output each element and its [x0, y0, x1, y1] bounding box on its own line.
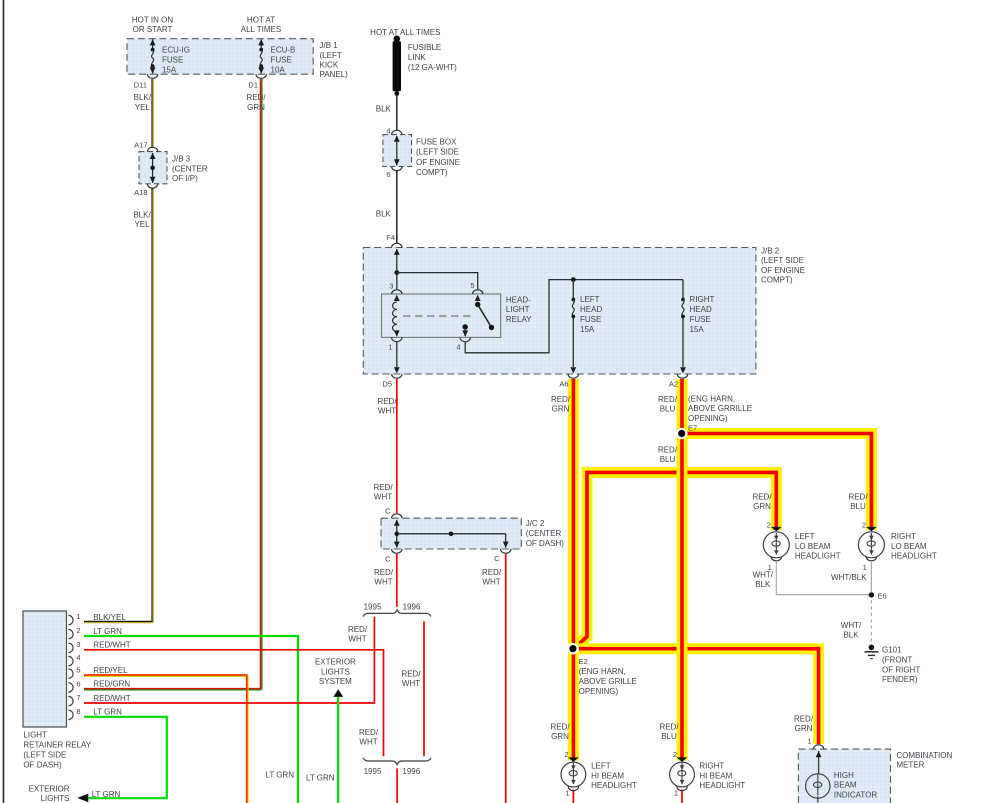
svg-text:GRN: GRN — [552, 405, 570, 414]
arrow to exterior lights (bottom left) — [77, 794, 88, 803]
svg-text:RED/: RED/ — [551, 395, 571, 404]
svg-text:15A: 15A — [580, 325, 595, 334]
svg-text:RED/WHT: RED/WHT — [93, 694, 130, 703]
svg-text:FUSIBLE: FUSIBLE — [408, 43, 441, 52]
svg-text:RED/: RED/ — [550, 723, 570, 732]
junction block J/B 3 (center of I/P) box — [139, 152, 167, 184]
J/B2 wire F4 to junction — [396, 249, 398, 273]
svg-text:RED/: RED/ — [794, 714, 814, 723]
light retainer relay box — [23, 611, 67, 727]
svg-text:COMPT): COMPT) — [761, 275, 793, 284]
svg-text:RED/WHT: RED/WHT — [93, 641, 130, 650]
svg-text:(12 GA-WHT): (12 GA-WHT) — [408, 63, 457, 72]
wire RED/WHT D5 to J/C2 — [396, 379, 398, 513]
svg-text:OF I/P): OF I/P) — [172, 174, 198, 183]
svg-text:J/B 3: J/B 3 — [172, 155, 191, 164]
fusible link (12 GA-WHT) — [393, 41, 401, 91]
svg-text:HOT AT: HOT AT — [247, 16, 275, 25]
svg-text:GRN: GRN — [753, 502, 771, 511]
wire WHT/BLK right lo beam to E6 — [870, 562, 872, 592]
J/B2 wire relay pin 4 to head fuses bus — [465, 280, 683, 353]
wire BLK/YEL A18 down to retainer relay pin 1 — [151, 189, 153, 622]
svg-text:BLK: BLK — [376, 105, 392, 114]
svg-text:C: C — [385, 554, 391, 563]
svg-text:HEADLIGHT: HEADLIGHT — [891, 552, 937, 561]
connector A6 — [568, 374, 578, 378]
svg-text:LT GRN: LT GRN — [265, 771, 294, 780]
svg-text:OPENING): OPENING) — [579, 687, 619, 696]
J/C2 bus — [395, 532, 400, 537]
svg-text:SYSTEM: SYSTEM — [319, 677, 352, 686]
svg-text:GRN: GRN — [247, 103, 265, 112]
svg-text:1995: 1995 — [364, 603, 382, 612]
connector pin 4 retainer relay — [68, 656, 73, 665]
svg-text:OF RIGHT: OF RIGHT — [882, 665, 920, 674]
svg-text:OR START: OR START — [133, 25, 173, 34]
connector relay pin 3 — [392, 290, 402, 294]
svg-text:3: 3 — [389, 281, 393, 290]
svg-text:(CENTER: (CENTER — [172, 164, 208, 173]
svg-text:LEFT: LEFT — [795, 532, 815, 541]
svg-text:RED/: RED/ — [659, 723, 679, 732]
wire RED/YEL retainer relay pin 5 down — [84, 676, 248, 803]
svg-text:OF DASH): OF DASH) — [23, 761, 62, 770]
svg-text:A18: A18 — [134, 188, 147, 197]
svg-text:RED/: RED/ — [752, 493, 772, 502]
relay mechanical link (dashed) — [403, 315, 471, 317]
svg-text:RED/: RED/ — [359, 728, 379, 737]
svg-text:BLU: BLU — [660, 405, 676, 414]
wire highlight band E2 to high beam indicator — [573, 649, 819, 744]
svg-text:RETAINER RELAY: RETAINER RELAY — [23, 741, 91, 750]
svg-text:LT GRN: LT GRN — [92, 790, 121, 799]
svg-text:(ENG HARN,: (ENG HARN, — [688, 394, 735, 403]
border frame left line — [3, 0, 5, 803]
svg-text:LEFT: LEFT — [580, 295, 600, 304]
wire red core A6 to left hi beam — [572, 379, 576, 758]
wire highlight band E7 to right lo beam — [682, 434, 871, 531]
svg-text:2: 2 — [76, 626, 80, 635]
left lo beam headlight — [763, 527, 789, 561]
wire red core E2 branch to left lo beam — [573, 472, 776, 649]
svg-text:5: 5 — [470, 281, 474, 290]
svg-text:(ENG HARN,: (ENG HARN, — [579, 667, 626, 676]
wire red core E2 to high beam indicator — [573, 649, 819, 744]
svg-text:BLU: BLU — [661, 732, 677, 741]
svg-text:J/C 2: J/C 2 — [526, 519, 545, 528]
connector A2 — [677, 374, 687, 378]
svg-text:G101: G101 — [882, 646, 902, 655]
svg-text:HEADLIGHT: HEADLIGHT — [699, 781, 745, 790]
svg-text:BLK/YEL: BLK/YEL — [93, 613, 126, 622]
svg-text:1: 1 — [565, 789, 569, 798]
svg-text:RIGHT: RIGHT — [891, 532, 916, 541]
junction connector J/C 2 (center of dash) box — [381, 518, 521, 549]
svg-text:FENDER): FENDER) — [882, 675, 918, 684]
svg-text:METER: METER — [896, 761, 924, 770]
left head fuse 15A — [570, 280, 576, 374]
relay switch contact pin 4 — [463, 324, 468, 329]
svg-text:RED/: RED/ — [374, 568, 394, 577]
svg-text:PANEL): PANEL) — [320, 70, 349, 79]
svg-text:GRN: GRN — [551, 732, 569, 741]
wire highlight band RED/BLU A2 to E7 to right hi beam — [677, 379, 688, 761]
wire highlight band RED/GRN A6 to E2 to left hi beam — [568, 379, 579, 761]
svg-text:RED/: RED/ — [848, 493, 868, 502]
arrow to exterior lights system — [333, 689, 343, 697]
junction E2 — [567, 643, 579, 655]
relay switch blade pin 5 to pin 4 — [475, 295, 481, 301]
svg-text:WHT: WHT — [378, 407, 396, 416]
svg-text:E2: E2 — [579, 657, 588, 666]
wire RED/WHT below bottom 1995/1996 brace — [396, 768, 398, 803]
svg-text:YEL: YEL — [135, 103, 151, 112]
connector A17 — [147, 147, 157, 151]
ground G101 — [869, 645, 875, 651]
svg-text:LIGHTS: LIGHTS — [41, 794, 70, 803]
svg-text:2: 2 — [862, 520, 866, 529]
wire LT GRN to exterior lights system arrow — [337, 697, 339, 803]
svg-text:EXTERIOR: EXTERIOR — [29, 784, 70, 793]
junction E6 — [869, 592, 874, 597]
svg-text:GRN: GRN — [795, 724, 813, 733]
fuse box internal wire — [396, 136, 398, 165]
svg-text:HOT AT ALL TIMES: HOT AT ALL TIMES — [370, 28, 440, 37]
wire BLK/YEL D11 to A17 — [151, 79, 153, 147]
svg-text:D11: D11 — [134, 80, 147, 89]
svg-text:INDICATOR: INDICATOR — [834, 790, 877, 799]
svg-text:OPENING): OPENING) — [688, 414, 728, 423]
svg-text:RED/: RED/ — [348, 625, 368, 634]
connector D1 — [256, 74, 266, 78]
svg-text:HOT IN ON: HOT IN ON — [132, 16, 173, 25]
svg-text:BLK: BLK — [755, 580, 771, 589]
svg-text:RIGHT: RIGHT — [699, 762, 724, 771]
svg-text:RED/: RED/ — [377, 397, 397, 406]
junction E7 — [676, 428, 688, 440]
svg-text:RED/: RED/ — [658, 445, 678, 454]
fuse ECU-IG 15A — [150, 39, 156, 73]
svg-text:6: 6 — [76, 679, 80, 688]
svg-text:FUSE: FUSE — [162, 55, 183, 64]
svg-text:WHT: WHT — [348, 634, 366, 643]
J/B2 wire junction to relay pin 3 — [396, 273, 398, 290]
svg-text:WHT/: WHT/ — [753, 570, 774, 579]
svg-text:A17: A17 — [134, 140, 147, 149]
svg-text:WHT: WHT — [374, 577, 392, 586]
svg-text:KICK: KICK — [320, 60, 339, 69]
svg-text:HI BEAM: HI BEAM — [591, 771, 624, 780]
svg-text:WHT: WHT — [482, 577, 500, 586]
svg-text:(CENTER: (CENTER — [526, 529, 562, 538]
svg-text:2: 2 — [767, 520, 771, 529]
svg-text:E7: E7 — [688, 424, 697, 433]
svg-text:LO BEAM: LO BEAM — [891, 542, 927, 551]
fuse ECU-B 10A — [258, 39, 264, 73]
svg-text:FUSE: FUSE — [580, 315, 601, 324]
svg-text:D1: D1 — [248, 80, 258, 89]
connector relay pin 1 — [392, 337, 402, 341]
headlight relay inner box — [382, 294, 501, 337]
svg-text:COMBINATION: COMBINATION — [896, 751, 952, 760]
wire highlight band E2 branch to left lo beam — [573, 472, 776, 649]
svg-text:(LEFT SIDE: (LEFT SIDE — [23, 751, 66, 760]
wire RED below left hi beam — [572, 790, 574, 803]
svg-text:(FRONT: (FRONT — [882, 655, 912, 664]
svg-text:F4: F4 — [386, 233, 395, 242]
svg-text:BEAM: BEAM — [834, 781, 857, 790]
svg-text:LT GRN: LT GRN — [93, 627, 122, 636]
svg-text:1996: 1996 — [402, 767, 420, 776]
svg-text:HI BEAM: HI BEAM — [699, 771, 732, 780]
svg-text:LEFT: LEFT — [591, 762, 611, 771]
connector C J/C2 top — [392, 514, 402, 518]
wire RED/WHT J/C2 left C to 1995/1996 brace — [396, 554, 398, 607]
connector F4 J/B2 top — [392, 243, 402, 247]
svg-text:FUSE BOX: FUSE BOX — [416, 137, 457, 146]
wire RED below right hi beam — [681, 790, 683, 803]
svg-text:HEAD-: HEAD- — [506, 295, 531, 304]
wire BLK fuse box to J/B2 F4 — [396, 171, 398, 243]
wire red core E7 to right lo beam — [682, 434, 871, 528]
svg-text:8: 8 — [76, 707, 80, 716]
svg-text:5: 5 — [76, 666, 80, 675]
svg-text:1: 1 — [863, 563, 867, 572]
svg-text:LT GRN: LT GRN — [306, 774, 335, 783]
svg-text:BLU: BLU — [850, 502, 866, 511]
connector pin 6 retainer relay — [68, 683, 73, 692]
svg-text:HEAD: HEAD — [690, 305, 712, 314]
wire WHT/BLK E6 to G101 (dashed) — [870, 600, 872, 643]
connector 4 fuse box top — [392, 130, 402, 134]
svg-text:RED/YEL: RED/YEL — [93, 666, 128, 675]
svg-text:(LEFT: (LEFT — [320, 51, 342, 60]
svg-text:1995: 1995 — [364, 767, 382, 776]
svg-text:BLU: BLU — [660, 455, 676, 464]
high beam indicator bulb — [806, 745, 830, 803]
wire LT GRN retainer relay pin 2 down — [84, 636, 298, 803]
J/C2 right internal wire — [505, 534, 507, 548]
brace bottom (1995/1996 merge) — [363, 758, 431, 765]
wire LT GRN retainer relay pin 8 to exterior lights arrow — [84, 717, 167, 798]
wire BLK fusible link to fuse box — [396, 95, 398, 130]
svg-text:WHT: WHT — [374, 493, 392, 502]
svg-text:RIGHT: RIGHT — [690, 295, 715, 304]
svg-text:BLK: BLK — [376, 210, 392, 219]
svg-text:4: 4 — [76, 653, 80, 662]
svg-text:BLK: BLK — [843, 630, 859, 639]
connector pin 3 retainer relay — [68, 643, 73, 652]
svg-text:4: 4 — [456, 343, 460, 352]
relay coil (pin 3 to pin 1) — [394, 295, 400, 301]
wire WHT/BLK left lo beam to E6 — [776, 562, 871, 595]
svg-text:LIGHTS: LIGHTS — [321, 667, 350, 676]
svg-text:10A: 10A — [271, 65, 286, 74]
svg-text:1: 1 — [674, 789, 678, 798]
svg-text:WHT/BLK: WHT/BLK — [831, 573, 867, 582]
svg-text:J/B 1: J/B 1 — [320, 41, 339, 50]
svg-text:BLK/: BLK/ — [134, 93, 152, 102]
svg-text:HEAD: HEAD — [580, 305, 602, 314]
svg-text:LINK: LINK — [408, 53, 426, 62]
svg-text:ECU-B: ECU-B — [271, 46, 296, 55]
connector pin 7 retainer relay — [68, 696, 73, 705]
wire red core A2 to right hi beam — [680, 379, 684, 758]
svg-text:D5: D5 — [382, 379, 392, 388]
wire RED/GRN D1 down to retainer relay pin 6 — [260, 79, 262, 689]
svg-text:2: 2 — [564, 750, 568, 759]
connector relay pin 4 — [460, 337, 470, 341]
svg-text:2: 2 — [673, 750, 677, 759]
J/C2 left internal wire — [396, 520, 398, 548]
svg-text:EXTERIOR: EXTERIOR — [315, 657, 356, 666]
svg-text:1: 1 — [807, 736, 811, 745]
svg-text:FUSE: FUSE — [690, 315, 711, 324]
svg-text:J/B 2: J/B 2 — [761, 247, 780, 256]
right lo beam headlight — [858, 527, 884, 561]
svg-text:HEADLIGHT: HEADLIGHT — [591, 781, 637, 790]
svg-text:ABOVE GRILLE: ABOVE GRILLE — [579, 677, 637, 686]
svg-text:E6: E6 — [878, 592, 887, 601]
svg-text:C: C — [385, 506, 391, 515]
svg-text:HIGH: HIGH — [834, 771, 854, 780]
connector pin 5 retainer relay — [68, 669, 73, 678]
svg-text:15A: 15A — [690, 325, 705, 334]
right hi beam headlight — [670, 757, 695, 790]
connector 6 fuse box bottom — [392, 167, 402, 171]
node HOT AT ALL TIMES dot — [394, 36, 401, 43]
svg-text:OF DASH): OF DASH) — [526, 539, 565, 548]
connector relay pin 5 — [473, 290, 483, 294]
svg-text:COMPT): COMPT) — [416, 168, 448, 177]
connector D5 — [392, 374, 402, 378]
svg-text:ABOVE GRRILLE: ABOVE GRRILLE — [688, 404, 752, 413]
svg-text:A2: A2 — [669, 379, 678, 388]
svg-text:OF ENGINE: OF ENGINE — [416, 158, 460, 167]
svg-text:RED/: RED/ — [246, 93, 266, 102]
svg-text:WHT/: WHT/ — [841, 621, 862, 630]
junction block J/B 1 (left kick panel) box — [127, 39, 313, 74]
svg-text:1: 1 — [388, 343, 392, 352]
svg-text:LT GRN: LT GRN — [93, 708, 122, 717]
svg-text:7: 7 — [76, 693, 80, 702]
svg-text:1: 1 — [76, 612, 80, 621]
svg-text:ECU-IG: ECU-IG — [162, 46, 190, 55]
connector C J/C2 bottom right — [501, 549, 511, 553]
svg-text:WHT: WHT — [402, 679, 420, 688]
wire RED/WHT retainer relay pin 7 up to pin3 run — [84, 617, 374, 703]
J/B3 internal wire — [152, 153, 154, 183]
svg-text:YEL: YEL — [134, 220, 150, 229]
svg-text:LO BEAM: LO BEAM — [795, 542, 831, 551]
svg-text:A6: A6 — [559, 379, 568, 388]
connector A18 — [147, 184, 157, 188]
svg-text:6: 6 — [386, 170, 390, 179]
svg-text:RED/: RED/ — [373, 483, 393, 492]
connector pin 8 retainer relay — [68, 710, 73, 719]
svg-text:OF ENGINE: OF ENGINE — [761, 266, 805, 275]
J/B2 wire relay pin 1 to D5 — [396, 342, 398, 367]
connector C J/C2 bottom left — [392, 549, 402, 553]
svg-text:(LEFT SIDE: (LEFT SIDE — [761, 256, 804, 265]
svg-text:C: C — [494, 554, 500, 563]
svg-text:RED/: RED/ — [658, 395, 678, 404]
svg-text:4: 4 — [386, 127, 390, 136]
left hi beam headlight — [561, 757, 586, 790]
svg-text:3: 3 — [76, 640, 80, 649]
svg-text:1996: 1996 — [403, 603, 421, 612]
svg-text:LIGHT: LIGHT — [23, 731, 47, 740]
svg-text:(LEFT SIDE: (LEFT SIDE — [416, 148, 459, 157]
wire RED/WHT retainer relay pin 3 to 1995 junction — [84, 650, 384, 757]
svg-text:RED/: RED/ — [401, 670, 421, 679]
right head fuse 15A — [680, 280, 686, 374]
brace top (1995/1996 split) — [363, 610, 431, 617]
wire RED/WHT 1996 leg — [423, 622, 425, 757]
svg-text:ALL TIMES: ALL TIMES — [241, 25, 281, 34]
svg-text:15A: 15A — [162, 65, 177, 74]
svg-text:FUSE: FUSE — [271, 55, 292, 64]
svg-text:LIGHT: LIGHT — [506, 305, 530, 314]
svg-text:RELAY: RELAY — [506, 315, 532, 324]
junction dot head fuse bus — [571, 277, 576, 282]
wire RED/WHT J/C2 right C down — [505, 554, 507, 803]
connector pin 2 retainer relay — [68, 629, 73, 638]
fuse box (left side of engine compt) box — [383, 135, 412, 167]
svg-text:BLK/: BLK/ — [133, 211, 151, 220]
svg-text:RED/GRN: RED/GRN — [93, 680, 130, 689]
connector pin 1 retainer relay — [68, 615, 73, 624]
svg-text:RED/: RED/ — [482, 568, 502, 577]
svg-text:WHT: WHT — [359, 738, 377, 747]
svg-text:HEADLIGHT: HEADLIGHT — [795, 552, 841, 561]
junction block J/B 2 (left side of engine compt) box — [363, 248, 756, 375]
junction dot in J/B2 — [394, 270, 399, 275]
connector D11 — [147, 74, 157, 78]
combination meter box — [798, 749, 890, 803]
J/B2 wire junction to relay pin 5 — [397, 273, 478, 290]
